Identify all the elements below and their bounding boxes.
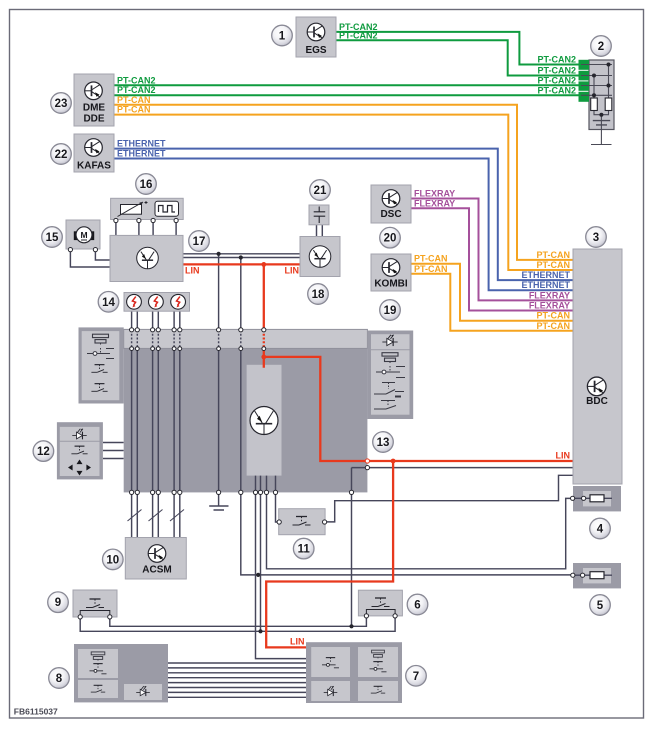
svg-text:8: 8 [56,673,63,685]
svg-text:6: 6 [414,600,420,612]
svg-text:DDE: DDE [83,114,104,125]
svg-text:22: 22 [55,149,68,161]
svg-text:PT-CAN: PT-CAN [117,105,151,115]
svg-text:KAFAS: KAFAS [77,160,111,171]
svg-text:ETHERNET: ETHERNET [117,149,166,159]
svg-text:7: 7 [413,671,419,683]
svg-text:1: 1 [279,31,286,43]
svg-text:23: 23 [55,98,68,110]
svg-text:ETHERNET: ETHERNET [521,280,570,290]
svg-text:19: 19 [384,305,397,317]
svg-text:9: 9 [55,597,61,609]
svg-text:PT-CAN2: PT-CAN2 [117,85,156,95]
svg-text:ETHERNET: ETHERNET [521,270,570,280]
svg-text:10: 10 [106,554,119,566]
svg-text:PT-CAN: PT-CAN [117,95,151,105]
svg-text:LIN: LIN [556,451,571,461]
svg-text:ACSM: ACSM [142,565,171,576]
svg-text:13: 13 [377,437,390,449]
svg-text:PT-CAN2: PT-CAN2 [537,55,576,65]
svg-text:PT-CAN2: PT-CAN2 [537,85,576,95]
svg-text:17: 17 [193,236,206,248]
svg-text:3: 3 [593,232,599,244]
svg-text:11: 11 [298,544,311,556]
svg-text:FLEXRAY: FLEXRAY [414,189,455,199]
svg-text:18: 18 [312,289,325,301]
svg-text:PT-CAN: PT-CAN [414,264,448,274]
svg-text:PT-CAN2: PT-CAN2 [117,75,156,85]
svg-text:LIN: LIN [285,265,300,275]
svg-text:M: M [80,230,87,240]
svg-text:PT-CAN: PT-CAN [414,254,448,264]
svg-text:KOMBI: KOMBI [374,279,408,290]
svg-text:5: 5 [597,600,604,612]
svg-text:ETHERNET: ETHERNET [117,139,166,149]
svg-text:FB6115037: FB6115037 [14,707,58,717]
svg-text:PT-CAN: PT-CAN [537,250,571,260]
svg-text:PT-CAN: PT-CAN [537,311,571,321]
svg-text:PT-CAN2: PT-CAN2 [537,66,576,76]
svg-text:16: 16 [140,179,153,191]
svg-text:PT-CAN: PT-CAN [537,260,571,270]
svg-text:DSC: DSC [380,209,401,220]
svg-text:2: 2 [598,41,604,53]
svg-text:FLEXRAY: FLEXRAY [529,301,570,311]
svg-text:4: 4 [597,524,604,536]
svg-text:FLEXRAY: FLEXRAY [414,198,455,208]
svg-text:LIN: LIN [290,636,305,646]
svg-text:12: 12 [37,446,50,458]
svg-text:LIN: LIN [185,265,200,275]
svg-text:15: 15 [46,232,59,244]
svg-text:14: 14 [102,297,115,309]
svg-text:DME: DME [83,103,106,114]
svg-text:FLEXRAY: FLEXRAY [529,290,570,300]
svg-text:PT-CAN2: PT-CAN2 [537,76,576,86]
svg-text:PT-CAN: PT-CAN [537,321,571,331]
svg-text:20: 20 [384,233,397,245]
svg-text:EGS: EGS [305,45,326,56]
svg-text:21: 21 [314,185,327,197]
svg-text:PT-CAN2: PT-CAN2 [339,30,378,40]
svg-text:BDC: BDC [586,396,608,407]
